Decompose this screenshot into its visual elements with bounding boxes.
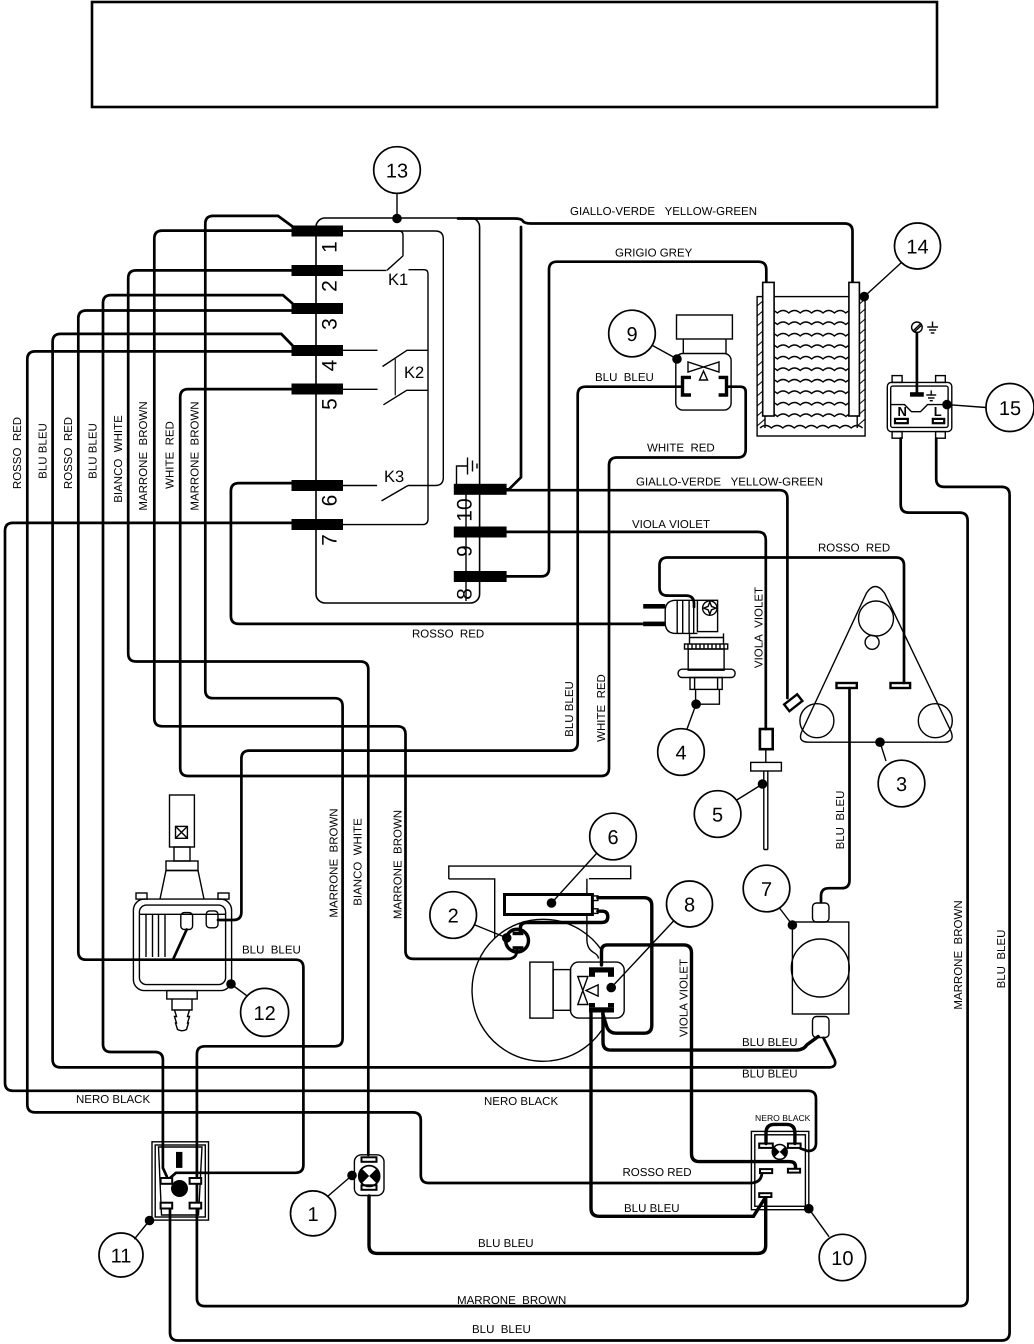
- svg-text:WHITE RED: WHITE RED: [647, 443, 715, 455]
- leader 4: [687, 704, 696, 729]
- switch 11 I marking: [176, 1152, 182, 1168]
- svg-text:8: 8: [454, 588, 477, 600]
- leader dot 9: [672, 354, 682, 364]
- motor 7 top tab: [813, 903, 830, 922]
- valve 8 body: [571, 962, 625, 1018]
- K2 mechanical link: [394, 359, 396, 395]
- wire BLU BLEU valve 9 left down: [218, 387, 683, 920]
- svg-text:BLU BLEU: BLU BLEU: [624, 1203, 680, 1215]
- svg-text:7: 7: [319, 534, 342, 546]
- svg-text:VIOLA VIOLET: VIOLA VIOLET: [632, 519, 710, 531]
- earth symbol at plug: [927, 322, 938, 334]
- leader dot 13: [392, 214, 402, 224]
- fuse bar tabs: [592, 896, 598, 901]
- svg-text:BLU BLEU: BLU BLEU: [564, 681, 576, 737]
- svg-text:VIOLA VIOLET: VIOLA VIOLET: [679, 959, 691, 1037]
- wire plug L to right BLU vertical: [170, 439, 1010, 1341]
- svg-text:7: 7: [761, 879, 772, 901]
- svg-text:NERO BLACK: NERO BLACK: [76, 1094, 150, 1106]
- svg-text:ROSSO RED: ROSSO RED: [623, 1167, 692, 1179]
- svg-text:ROSSO RED: ROSSO RED: [818, 543, 890, 555]
- terminal block: [292, 218, 507, 603]
- terminal bar 4: [292, 345, 344, 356]
- middle components: [218, 310, 952, 920]
- title box: [92, 2, 937, 107]
- pump pin B: [206, 911, 218, 928]
- svg-text:13: 13: [386, 161, 408, 183]
- leader dot 8: [606, 983, 616, 993]
- pump neck: [174, 847, 190, 861]
- fuse 2 bottom terminal: [513, 946, 524, 950]
- fuse 2 top terminal: [513, 932, 524, 936]
- svg-text:WHITE RED: WHITE RED: [164, 421, 176, 489]
- pump pin A: [181, 913, 193, 930]
- svg-text:BLU BLEU: BLU BLEU: [242, 945, 301, 957]
- svg-text:BLU BLEU: BLU BLEU: [996, 930, 1008, 989]
- pump outlet stub: [172, 999, 192, 1010]
- wire BLU valve 8 bottom to motor 7 bottom: [603, 1013, 818, 1050]
- lighted switch 10 body: [751, 1131, 808, 1209]
- wire terminal10 earth up to yellow-green run: [507, 227, 521, 489]
- svg-text:WHITE RED: WHITE RED: [596, 674, 608, 742]
- wire VIOLA valve 8 top to switch 10 MR: [602, 945, 796, 1169]
- K1 switch arm: [387, 256, 403, 270]
- K2 upper arm: [383, 350, 429, 366]
- wire T5 WHITE RED column 7 to valve 9 right: [180, 387, 746, 776]
- wire T3 BLU BLEU column 4 to switch 11 TL: [103, 295, 293, 1176]
- svg-text:3: 3: [896, 774, 907, 796]
- svg-text:ROSSO RED: ROSSO RED: [12, 417, 24, 489]
- terminal block outline: [316, 218, 480, 603]
- svg-text:MARRONE BROWN: MARRONE BROWN: [457, 1295, 566, 1307]
- plug earth pin: [910, 392, 924, 397]
- solenoid valve 9 top rect: [677, 315, 733, 339]
- svg-text:NERO BLACK: NERO BLACK: [755, 1113, 811, 1123]
- valve 8 symbol: [578, 977, 598, 1005]
- terminal bar 2: [292, 265, 344, 276]
- indicator lamp 1 body: [354, 1155, 384, 1196]
- thermostat 4 body: [665, 600, 735, 704]
- valve 9 bowtie symbol: [688, 362, 719, 372]
- leader 10: [809, 1209, 829, 1237]
- callout circle 1: [291, 1191, 336, 1236]
- leader dot 15: [942, 400, 952, 410]
- wire T6 ROSSO RED to thermostat 4: [231, 483, 644, 624]
- svg-text:MARRONE BROWN: MARRONE BROWN: [329, 808, 341, 917]
- wire T2 BIANCO WHITE column 5 to lamp 1: [128, 270, 368, 1155]
- plug earth stem: [916, 333, 919, 393]
- motor 7 body: [792, 922, 848, 1014]
- leader dot 4: [691, 699, 701, 709]
- svg-text:10: 10: [454, 498, 477, 521]
- wire T1 to outer rail: [343, 231, 443, 486]
- inner rail x428 down to T7: [343, 276, 428, 525]
- pump ears: [136, 893, 147, 899]
- svg-text:NERO BLACK: NERO BLACK: [484, 1096, 558, 1108]
- wire T3 ROSSO RED column 3 to pump and switch 11 TL: [78, 311, 303, 1181]
- lamp 1 terminals: [362, 1157, 377, 1162]
- svg-text:MARRONE BROWN: MARRONE BROWN: [189, 401, 201, 510]
- callout circle 13: [374, 147, 421, 194]
- wire T5 to K2 lower pole: [343, 388, 378, 390]
- terminal bar 1: [292, 226, 344, 237]
- plate 3 small hole: [865, 635, 879, 649]
- wire T1 MARRONE BROWN column 6 to fuse 2: [154, 231, 517, 959]
- svg-text:2: 2: [448, 906, 459, 928]
- svg-text:11: 11: [111, 1246, 132, 1268]
- leader 6: [552, 854, 597, 904]
- plug top tabs: [892, 376, 902, 383]
- tank water waves: [760, 311, 863, 429]
- callout circle 7: [743, 865, 790, 912]
- svg-text:1: 1: [319, 241, 342, 253]
- lamp 1 bulb symbol: [359, 1166, 380, 1187]
- plate 3 left hole: [800, 704, 834, 738]
- leader 11: [134, 1221, 149, 1240]
- wire T1 MARRONE BROWN column 8 long chain to plug N: [197, 216, 968, 1306]
- terminal bar 10: [454, 484, 507, 495]
- leader dot 5: [758, 779, 768, 789]
- terminal bar 9: [454, 527, 507, 538]
- wire BLU BLEU plate3 to motor 7: [821, 688, 850, 902]
- pump pin A lead: [174, 930, 187, 959]
- callout circle 6: [590, 813, 637, 860]
- wire thermostat4 top feed: [668, 596, 695, 607]
- leader dot 1: [347, 1171, 357, 1181]
- callout circle 14: [895, 223, 941, 269]
- wire T2 to K1 arm pivot: [343, 269, 387, 271]
- wire T9 VIOLA VIOLET to probe 5: [507, 532, 766, 729]
- pump coil stripes: [139, 914, 225, 957]
- wire T4 BLU BLEU column 2 to motor bottom: [53, 334, 836, 1068]
- svg-text:10: 10: [831, 1248, 853, 1270]
- svg-text:BLU BLEU: BLU BLEU: [472, 1324, 531, 1336]
- leader dot 3: [875, 737, 885, 747]
- bracket right leg: [587, 879, 599, 959]
- svg-text:BIANCO WHITE: BIANCO WHITE: [352, 818, 364, 906]
- svg-text:N: N: [898, 404, 907, 419]
- svg-text:BLU BLEU: BLU BLEU: [835, 791, 847, 850]
- valve 8 bottom terminal: [589, 1007, 614, 1012]
- pump outlet flange: [167, 991, 197, 999]
- switch 10 lamp: [772, 1145, 787, 1160]
- leader 15: [947, 405, 986, 408]
- svg-text:MARRONE BROWN: MARRONE BROWN: [393, 810, 405, 919]
- pump outlet barb: [175, 1010, 190, 1031]
- callout circle 8: [667, 881, 713, 927]
- leader dot 7: [788, 920, 798, 930]
- boiler body circle: [472, 919, 605, 1061]
- wire GIALLO-VERDE 2 to chassis tab: [507, 490, 788, 698]
- svg-text:8: 8: [684, 895, 695, 917]
- wire GIALLO-VERDE to tank right electrode: [458, 219, 853, 283]
- svg-text:BLU BLEU: BLU BLEU: [595, 372, 654, 384]
- leader dot 2: [502, 933, 512, 943]
- switch 10 NERO strap: [766, 1124, 795, 1143]
- thermal fuse bar 6: [505, 895, 593, 915]
- svg-text:K2: K2: [404, 364, 424, 382]
- svg-text:2: 2: [319, 280, 342, 292]
- svg-text:K3: K3: [384, 468, 404, 486]
- callout circle 9: [609, 310, 656, 357]
- svg-text:6: 6: [607, 827, 618, 849]
- svg-text:14: 14: [906, 237, 928, 259]
- svg-text:K1: K1: [388, 271, 408, 289]
- svg-text:GRIGIO GREY: GRIGIO GREY: [615, 248, 693, 260]
- wire T6 to K3: [343, 485, 377, 487]
- pump flare: [160, 871, 204, 900]
- svg-text:BIANCO WHITE: BIANCO WHITE: [113, 415, 125, 503]
- wire T4 to K2 upper pole: [343, 349, 378, 351]
- K1 jumper to inner rail: [409, 270, 429, 276]
- motor 7 bottom tab: [813, 1017, 830, 1038]
- plug L pin: [933, 419, 944, 423]
- wire T7 NERO BLACK to switch 10 TR: [5, 523, 816, 1151]
- leader 7: [780, 908, 793, 925]
- terminal bar 7: [292, 519, 344, 530]
- svg-text:15: 15: [999, 398, 1021, 420]
- leader dot 10: [804, 1204, 814, 1214]
- K2 lower arm: [383, 390, 428, 405]
- svg-text:5: 5: [712, 805, 723, 827]
- callout circle 15: [986, 384, 1034, 432]
- svg-text:BLU BLEU: BLU BLEU: [88, 423, 100, 479]
- plate 3 right hole: [918, 704, 952, 738]
- switch 11 center dot: [171, 1180, 188, 1197]
- svg-text:MARRONE BROWN: MARRONE BROWN: [138, 401, 150, 510]
- svg-text:BLU BLEU: BLU BLEU: [742, 1069, 798, 1081]
- wire BLU valve 8 bottom to switch 10 B: [591, 1013, 765, 1216]
- plate 3 chassis tab: [784, 694, 802, 711]
- tank right electrode: [849, 282, 860, 416]
- bottom components: [76, 795, 866, 1336]
- leader 8: [611, 921, 674, 988]
- valve 9 left bracket terminal: [683, 377, 692, 395]
- svg-text:GIALLO-VERDE YELLOW-GREEN: GIALLO-VERDE YELLOW-GREEN: [636, 477, 823, 489]
- terminal bar 3: [292, 303, 344, 314]
- thermostat plate 3 triangle: [800, 587, 952, 743]
- leader 13: [396, 193, 398, 214]
- leader dot 11: [145, 1216, 155, 1226]
- svg-text:ROSSO RED: ROSSO RED: [63, 417, 75, 489]
- svg-text:1: 1: [307, 1204, 318, 1226]
- wire T1 to K1 fixed contact: [343, 231, 403, 256]
- terminal bar 6: [292, 480, 344, 491]
- callout circle 5: [694, 791, 741, 838]
- probe 5 collar: [751, 762, 782, 771]
- svg-text:12: 12: [253, 1003, 275, 1025]
- leader 3: [880, 742, 886, 761]
- leader dot 12: [226, 979, 236, 989]
- svg-text:3: 3: [319, 318, 342, 330]
- pump collar: [166, 861, 198, 871]
- water tank 14 body: [757, 297, 865, 436]
- earth strap inside block (bars 10-9-8 column): [465, 492, 467, 601]
- svg-text:GIALLO-VERDE YELLOW-GREEN: GIALLO-VERDE YELLOW-GREEN: [570, 206, 757, 218]
- plate 3 right terminal: [891, 683, 911, 688]
- plug earth screw: [912, 322, 923, 333]
- leader 2: [474, 925, 507, 938]
- tank left electrode: [763, 282, 774, 416]
- wire switch 10 B to lamp 1 bottom: [369, 1196, 766, 1253]
- plunger X box: [176, 826, 188, 838]
- svg-text:6: 6: [319, 495, 342, 507]
- plate 3 left terminal: [837, 683, 857, 688]
- terminal bar 5: [292, 384, 344, 395]
- pump 12 body: [133, 899, 231, 991]
- thermal fuse 2: [506, 929, 529, 952]
- svg-text:4: 4: [319, 359, 342, 371]
- K3 switch arm: [382, 486, 409, 501]
- svg-text:5: 5: [319, 398, 342, 410]
- svg-text:ROSSO RED: ROSSO RED: [412, 629, 484, 641]
- plug N pin: [895, 419, 908, 423]
- power plug 15 body: [887, 382, 952, 431]
- leader 5: [736, 784, 763, 801]
- thermostat 4 left pins: [643, 604, 665, 609]
- svg-text:VIOLA VIOLET: VIOLA VIOLET: [753, 587, 765, 668]
- svg-text:4: 4: [675, 743, 686, 765]
- leader 12: [231, 984, 248, 996]
- wire ROSSO RED to thermostat4 and triangle3: [660, 558, 905, 684]
- svg-text:MARRONE BROWN: MARRONE BROWN: [953, 900, 965, 1009]
- valve 8 mid rect: [553, 970, 570, 1011]
- solenoid valve 8 left rect: [530, 962, 553, 1018]
- ground symbol above terminal 10: [457, 458, 478, 485]
- pump plunger: [170, 795, 195, 847]
- leader 9: [653, 346, 678, 360]
- svg-text:9: 9: [626, 324, 637, 346]
- leader 14: [864, 263, 901, 297]
- callout circle 4: [658, 729, 705, 776]
- svg-text:BLU BLEU: BLU BLEU: [742, 1037, 798, 1049]
- plug bottom tabs: [892, 432, 902, 439]
- power switch 11 body: [152, 1142, 209, 1220]
- valve 8 top terminal: [589, 967, 614, 972]
- leader dot 14: [859, 292, 869, 302]
- wire fuse bar bottom tab to fuse 2: [520, 911, 607, 932]
- valve 9 body: [676, 354, 731, 411]
- callout circle 12: [241, 988, 289, 1036]
- wire fuse bar top tab to valve 8 bottom loop: [598, 898, 652, 1033]
- left wire bundle: [5, 216, 968, 1306]
- valve 9 right bracket terminal: [719, 377, 727, 395]
- switch 10 terminals: [759, 1144, 773, 1148]
- plug inner earth glyph: [926, 390, 936, 400]
- callout circle 10: [819, 1234, 865, 1280]
- mounting bracket 6 top bar: [449, 866, 631, 938]
- leader dot 6: [547, 898, 557, 908]
- wire T4 ROSSO RED column 1 to switch 10 ML: [27, 351, 762, 1183]
- wire T8 GRIGIO up: [507, 262, 767, 577]
- callout circle 2: [430, 892, 477, 939]
- svg-text:9: 9: [454, 545, 477, 557]
- top area: tank, plug: [170, 147, 1034, 1341]
- leader 1: [328, 1175, 353, 1196]
- svg-text:L: L: [934, 404, 942, 419]
- svg-text:BLU BLEU: BLU BLEU: [37, 423, 49, 479]
- callout circle 11: [99, 1233, 143, 1277]
- motor 7 rotor circle: [791, 939, 849, 997]
- svg-text:BLU BLEU: BLU BLEU: [478, 1238, 534, 1250]
- switch 11 terminals: [161, 1178, 173, 1184]
- plate 3 top hole: [859, 601, 894, 636]
- valve 9 drop triangle: [700, 371, 708, 380]
- plug face V contour: [891, 405, 948, 412]
- terminal bar 8: [454, 571, 507, 582]
- probe 5 bulb: [760, 729, 773, 749]
- probe 5 stem: [764, 771, 768, 850]
- callout circle 3: [878, 760, 925, 807]
- valve 9 neck: [683, 339, 726, 354]
